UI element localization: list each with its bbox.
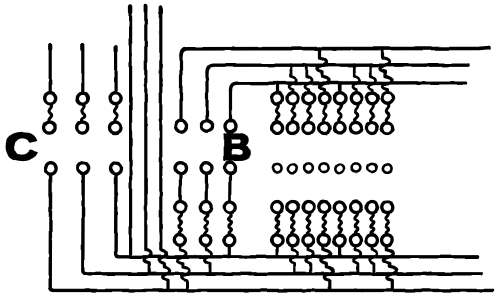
bank column R2 drop from bus T2 [289,63,296,92]
bank column R1 lower circle [272,202,283,213]
trunk wire V3 [159,8,170,289]
bank column R6 upper circle [351,93,362,104]
contact column L2 spring [81,104,84,122]
selector column M3 bank circle [225,121,236,132]
top bus T3 [231,83,466,91]
contact column L3 lower circle [110,122,121,133]
bank column R7 drop from bus T2 [368,63,375,92]
wire R3 to bottom bus 2 [306,246,313,273]
bank column R1 upper circle [272,93,283,104]
label B [222,126,252,168]
selector column M2 lower spring [205,213,208,235]
bank column R3 drop from bus T2 [305,63,312,92]
selector column M3 lower spring [228,213,231,235]
bank column R4 idle wiper circle [320,163,329,172]
trunk wire V2 [144,6,151,273]
bank column R8 idle wiper circle [383,165,392,174]
contact column L1 lower circle [44,122,55,133]
wire M1 to bottom bus 3 [178,246,190,289]
wire R4 to bottom bus 3 [321,246,334,289]
bank column R4 upper circle [319,93,330,104]
bank column R8 upper circle [382,93,393,104]
bank column R8 bottom circle [382,235,393,246]
bank column R2 idle wiper circle [288,165,297,174]
bank column R5 upper circle [335,93,346,104]
bank column R7 lower spring [371,213,374,235]
bank column R4 drop from bus T1 [317,47,329,93]
selector column M2 bottom circle [200,235,211,246]
bank column R2 upper spring [292,104,295,122]
bank column R6 upper spring [355,104,358,122]
bank column R4 lower circle [319,202,330,213]
bank column R5 drop from bus T3 [338,81,342,92]
selector column M1 drop wire [179,54,182,121]
contact column L2 stem [81,45,84,93]
bank column R2 bottom circle [287,235,298,246]
wire R2 to bottom bus 2 [290,246,297,273]
bank column R1 idle wiper circle [273,163,282,172]
bank column R7 upper spring [371,104,374,122]
bank column R3 second circle [303,123,314,134]
bank column R8 drop from bus T1 [380,47,392,93]
selector column M1 wiper circle [175,163,186,174]
contact column L1 spring [49,104,52,122]
selector column M3 drop wire [229,89,232,121]
bank column R7 bottom circle [366,235,377,246]
contact column L1 stem [49,45,52,93]
bank column R6 second circle [350,123,361,134]
wire M3 to bottom bus 1 [228,246,231,256]
bank column R7 lower circle [367,202,378,213]
bank column R3 upper spring [307,104,310,122]
bank column R8 lower spring [386,213,389,235]
bank column R8 second circle [382,123,393,134]
top bus T1 [181,48,490,56]
wire L2 to bottom bus 2 [83,174,481,274]
bank column R1 drop from bus T3 [276,81,280,92]
trunk wire V1 [129,7,132,256]
bank column R8 lower circle [382,202,393,213]
selector column M1 bank circle [176,121,187,132]
bank column R1 bottom circle [272,235,283,246]
bank column R7 second circle [366,123,377,134]
selector column M2 lower circle [201,202,212,213]
bank column R5 bottom circle [334,235,345,246]
contact column L1 armature circle [45,163,56,174]
selector column M2 wiper stem [205,174,209,201]
label C [5,125,37,168]
bank column R6 lower circle [351,202,362,213]
selector column M2 bank circle [202,121,213,132]
selector column M1 bottom circle [174,235,185,246]
bank column R3 lower spring [307,213,310,235]
bank column R3 lower circle [303,202,314,213]
bank column R2 lower circle [287,202,298,213]
wire M2 to bottom bus 2 [204,246,211,273]
bank column R3 idle wiper circle [304,163,313,172]
bank column R8 upper spring [386,104,389,122]
bank column R1 upper spring [276,104,279,122]
svg-text:C: C [5,125,37,168]
selector column M2 wiper circle [201,163,212,174]
bank column R4 bottom circle [319,235,330,246]
bank column R7 upper circle [367,93,378,104]
top bus T2 [207,65,468,72]
bank column R7 idle wiper circle [368,163,377,172]
selector column M3 lower circle [224,202,235,213]
selector column M2 drop wire [205,71,208,121]
bank column R6 idle wiper circle [352,163,361,172]
selector column M3 bottom circle [224,235,235,246]
bank column R6 drop from bus T2 [352,63,359,92]
contact column L3 spring [114,104,117,122]
bank column R3 upper circle [303,93,314,104]
wire R1 to bottom bus 1 [276,246,279,256]
bank column R3 bottom circle [303,235,314,246]
bank column R4 second circle [319,123,330,134]
contact column L2 upper circle [77,93,88,104]
bank column R5 upper spring [339,104,342,122]
selector column M1 wiper stem [179,174,183,201]
bank column R2 upper circle [288,93,299,104]
contact column L3 armature circle [111,163,122,174]
selector column M1 lower spring [179,213,182,235]
bank column R2 second circle [287,123,298,134]
wire R7 to bottom bus 2 [370,246,377,273]
bank column R2 lower spring [292,213,295,235]
bank column R5 lower circle [334,202,345,213]
bank column R4 lower spring [323,213,326,235]
selector column M1 lower circle [175,202,186,213]
bank column R1 second circle [272,123,283,134]
bank column R5 lower spring [339,213,342,235]
contact column L3 upper circle [110,93,121,104]
wire R8 to bottom bus 3 [384,246,397,289]
selector column M3 wiper circle [225,163,236,174]
contact column L2 armature circle [78,163,89,174]
bank column R5 idle wiper circle [335,165,344,174]
wire L3 to bottom bus 1 [116,174,477,257]
wire R6 to bottom bus 2 [354,246,361,273]
bank column R6 bottom circle [350,235,361,246]
wire R5 to bottom bus 1 [338,246,341,256]
bank column R4 upper spring [323,104,326,122]
selector column M3 wiper stem [228,174,232,201]
bank column R1 lower spring [276,213,279,235]
contact column L2 lower circle [77,122,88,133]
wire L1 to bottom bus 3 [50,174,493,290]
bank column R5 second circle [334,123,345,134]
bank column R6 lower spring [355,213,358,235]
contact column L3 stem [114,47,117,93]
contact column L1 upper circle [45,93,56,104]
